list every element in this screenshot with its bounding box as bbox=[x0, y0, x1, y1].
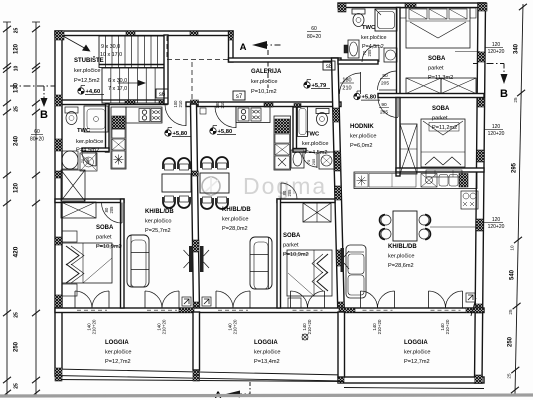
wall party apt1-apt2 vertical bbox=[191, 104, 200, 312]
balcony door label 5 bbox=[372, 319, 382, 334]
apt3 bed1 nightstand left bbox=[400, 8, 406, 18]
svg-text:120: 120 bbox=[14, 182, 20, 193]
svg-text:250: 250 bbox=[508, 336, 514, 347]
balcony french door 6 bbox=[429, 291, 463, 310]
svg-text:ker.pločice: ker.pločice bbox=[222, 217, 248, 223]
svg-text:ker.pločice: ker.pločice bbox=[105, 350, 131, 356]
pier party1 b bbox=[193, 302, 199, 312]
wall stairwell right vertical bbox=[164, 35, 168, 104]
room label apt2 KH/BL/DB bbox=[222, 207, 251, 232]
svg-text:SOBA: SOBA bbox=[428, 56, 446, 62]
left dimension line outer bbox=[3, 22, 11, 396]
scan edge line bottom bbox=[0, 395, 533, 396]
left width annotation 60/80+20 bbox=[30, 129, 44, 143]
apt1 twc toilet bbox=[65, 107, 78, 125]
svg-text:P=4,5m2: P=4,5m2 bbox=[76, 148, 99, 154]
svg-text:STUBIŠTE: STUBIŠTE bbox=[74, 56, 104, 64]
svg-text:ker.pločice: ker.pločice bbox=[350, 134, 376, 140]
balcony french door 2 bbox=[145, 291, 179, 310]
loggia pillar foot left bbox=[55, 376, 62, 382]
right dimension labels bbox=[507, 43, 520, 378]
svg-text:60: 60 bbox=[34, 129, 40, 135]
svg-text:180: 180 bbox=[342, 78, 351, 84]
svg-text:ker.pločice: ker.pločice bbox=[404, 350, 430, 356]
wall apt1 twc right vertical bbox=[106, 104, 110, 152]
outer wall gallery step vertical bbox=[229, 31, 234, 62]
svg-text:ker.pločice: ker.pločice bbox=[254, 350, 280, 356]
window label 180/210 apt3 bbox=[340, 78, 354, 92]
apt1 washbasin bbox=[62, 151, 78, 169]
apt2 kitchen counter bbox=[236, 107, 270, 123]
apt2 kitchen column bbox=[274, 116, 291, 170]
svg-text:B: B bbox=[500, 88, 508, 100]
apt3 right wall leader a bbox=[455, 51, 480, 53]
room label apt1 KH/BL/DB bbox=[145, 209, 174, 234]
svg-text:+5,80: +5,80 bbox=[173, 131, 188, 137]
apt3 twc washbasin bbox=[344, 40, 359, 58]
svg-text:205: 205 bbox=[311, 158, 316, 165]
apt2 level marker +5,80 bbox=[210, 126, 236, 136]
svg-text:SOBA: SOBA bbox=[283, 233, 301, 239]
svg-text:25: 25 bbox=[14, 383, 20, 389]
svg-text:s7: s7 bbox=[236, 94, 243, 100]
svg-text:210+20: 210+20 bbox=[307, 319, 312, 334]
wall main horizontal y100 (left span) bbox=[62, 100, 167, 105]
apt3 hall wardrobe bbox=[400, 124, 417, 174]
svg-text:P=13,4m2: P=13,4m2 bbox=[254, 359, 280, 365]
staircase label 10x17 bbox=[100, 52, 122, 58]
apt1 bed bbox=[62, 243, 112, 283]
svg-text:SOBA: SOBA bbox=[432, 106, 450, 112]
balcony door label 4 bbox=[302, 319, 312, 334]
room label loggia2 bbox=[254, 340, 280, 365]
level marker +4,60 stairs bbox=[78, 86, 104, 96]
apt1 nightstand 1 bbox=[62, 231, 77, 242]
svg-text:80+20: 80+20 bbox=[30, 137, 44, 143]
door apt3 soba2 bbox=[378, 98, 398, 118]
wall apt2 twc bottom stub bbox=[293, 149, 306, 153]
staircase label 6x30 bbox=[108, 78, 127, 84]
loggia2 level marker bbox=[302, 334, 308, 340]
room label apt3 TWC bbox=[362, 25, 376, 31]
svg-text:KH/BL/DB: KH/BL/DB bbox=[388, 244, 417, 250]
door apt2 soba bbox=[281, 183, 297, 199]
window mark square 3 bbox=[466, 293, 475, 302]
wall apt3 twc right vertical bbox=[397, 8, 401, 98]
pier top wall a bbox=[126, 31, 135, 36]
svg-text:P=28,6m2: P=28,6m2 bbox=[388, 263, 414, 269]
wall apt1 soba-kh divider vertical bbox=[121, 199, 125, 308]
gallery open edge dashed horizontal bbox=[167, 59, 229, 61]
window tag s7 bbox=[233, 91, 245, 100]
svg-text:210+20: 210+20 bbox=[445, 319, 450, 334]
svg-text:210: 210 bbox=[342, 86, 351, 92]
right dimension line bbox=[515, 4, 523, 394]
svg-text:GALERIJA: GALERIJA bbox=[251, 69, 282, 75]
wall apt3 hall horizontal y95 bbox=[378, 94, 484, 98]
pier top-left corner bbox=[55, 31, 64, 40]
svg-text:205: 205 bbox=[287, 189, 292, 197]
right dimension ticks bbox=[511, 4, 527, 393]
apt2 washing machine bbox=[319, 152, 335, 169]
svg-text:250: 250 bbox=[14, 341, 20, 352]
svg-text:TWC: TWC bbox=[77, 128, 91, 134]
pier left wall b bbox=[55, 139, 62, 151]
outer wall loggia bottom right bbox=[338, 377, 484, 383]
svg-text:90: 90 bbox=[382, 73, 388, 79]
wall bottom of rooms horizontal bbox=[55, 308, 484, 313]
staircase label 9x30 bbox=[101, 44, 120, 50]
svg-text:210+20: 210+20 bbox=[233, 319, 238, 334]
apt3 bed2 bbox=[421, 119, 465, 167]
svg-text:TWC: TWC bbox=[306, 132, 320, 138]
watermark logo bbox=[202, 173, 327, 199]
svg-text:10: 10 bbox=[510, 245, 515, 251]
svg-text:25: 25 bbox=[14, 28, 20, 34]
pier bottom wall b bbox=[339, 308, 355, 313]
right window annotation 120/120+20 #1 bbox=[480, 42, 505, 55]
svg-text:P=4,5m2: P=4,5m2 bbox=[305, 150, 328, 156]
level marker +5,80 apt3 bbox=[354, 91, 380, 101]
right window annotation 120/120+20 #2 bbox=[480, 124, 505, 137]
window mark square 2 bbox=[202, 297, 211, 306]
svg-text:LOGGIA: LOGGIA bbox=[404, 340, 428, 346]
svg-text:P=10,1m2: P=10,1m2 bbox=[251, 89, 277, 95]
door apt2 twc bbox=[302, 152, 317, 168]
door apt3 soba1 bbox=[378, 71, 397, 90]
wall apt2 soba top horizontal bbox=[277, 199, 335, 203]
svg-text:210: 210 bbox=[178, 100, 183, 108]
svg-text:HODNIK: HODNIK bbox=[350, 124, 374, 130]
section marker A top bbox=[240, 41, 283, 88]
svg-text:205: 205 bbox=[381, 81, 389, 87]
pier party2 c bbox=[336, 250, 343, 266]
window tag s6 bbox=[156, 89, 168, 98]
pier right wall c bbox=[477, 150, 484, 162]
svg-text:P=4,5m2: P=4,5m2 bbox=[362, 44, 384, 50]
svg-text:B: B bbox=[40, 109, 48, 121]
svg-text:+5,79: +5,79 bbox=[312, 83, 327, 89]
apt1 kh wardrobe tall bbox=[61, 170, 85, 201]
pier main wall c bbox=[191, 100, 199, 106]
apt1 tv bbox=[184, 246, 193, 272]
apt3 soba1 wardrobe bbox=[406, 78, 476, 94]
pier party2 b2 bbox=[334, 151, 341, 171]
svg-text:25: 25 bbox=[513, 97, 518, 103]
svg-text:90: 90 bbox=[381, 102, 387, 108]
room label loggia3 bbox=[404, 340, 430, 365]
room label apt2 TWC bbox=[302, 132, 330, 157]
svg-text:LOGGIA: LOGGIA bbox=[105, 340, 129, 346]
pier loggia mid bbox=[338, 369, 344, 383]
apt2 tv bbox=[200, 246, 209, 272]
svg-text:P=28,0m2: P=28,0m2 bbox=[222, 226, 248, 232]
room label loggia1 bbox=[105, 340, 131, 365]
pier bottom wall c bbox=[466, 308, 484, 313]
apt1 level marker +5,80 bbox=[165, 128, 191, 138]
apt3 right wall door leaf bbox=[471, 298, 476, 316]
apt1 sofa bbox=[127, 235, 149, 287]
outer wall apt3 top horizontal bbox=[338, 3, 486, 8]
svg-text:120+20: 120+20 bbox=[488, 224, 505, 230]
apt3 washing machine bbox=[461, 191, 478, 209]
section marker A bottom bbox=[215, 382, 250, 400]
balcony door label 3 bbox=[228, 319, 238, 334]
pier right wall d bbox=[476, 219, 483, 231]
svg-text:s6: s6 bbox=[159, 92, 166, 98]
svg-text:ker.pločice: ker.pločice bbox=[76, 139, 103, 145]
pier apt3 top-right corner bbox=[478, 3, 487, 11]
svg-text:60: 60 bbox=[311, 26, 317, 32]
door apt3 entrance bbox=[340, 72, 361, 94]
pier left wall d bbox=[55, 295, 62, 308]
stair void edge dashed bbox=[166, 36, 168, 60]
apt2 sofa bbox=[250, 237, 272, 289]
room label apt1 TWC bbox=[76, 128, 103, 154]
apt3 twc toilet bbox=[352, 9, 365, 27]
outer wall gallery top horizontal bbox=[229, 58, 342, 62]
svg-text:ker.pločico: ker.pločico bbox=[145, 219, 171, 225]
wall apt3 twc bottom horizontal bbox=[338, 60, 378, 64]
door apt1 entrance bbox=[165, 100, 186, 126]
pier party1 c bbox=[192, 171, 199, 176]
svg-text:s8: s8 bbox=[326, 64, 333, 70]
outer wall top-left horizontal bbox=[55, 31, 233, 36]
svg-text:540: 540 bbox=[510, 269, 516, 280]
pier bottom wall a bbox=[179, 308, 194, 313]
svg-text:9 x 30,0: 9 x 30,0 bbox=[101, 44, 120, 50]
pier party2 d bbox=[338, 302, 345, 312]
svg-text:ker.pločice: ker.pločice bbox=[251, 79, 277, 85]
svg-text:7 x 17,0: 7 x 17,0 bbox=[108, 86, 127, 92]
door apt1 twc bbox=[80, 152, 96, 166]
pier right wall bottom bbox=[475, 375, 483, 383]
svg-text:210: 210 bbox=[220, 101, 225, 109]
svg-text:A: A bbox=[240, 42, 247, 53]
loggia slab edge right bbox=[344, 388, 484, 389]
door apt1 soba bbox=[102, 203, 123, 224]
staircase upper flight bbox=[99, 36, 164, 68]
loggia slab edge left bbox=[55, 380, 344, 382]
svg-text:130: 130 bbox=[14, 82, 20, 93]
svg-text:ker.pločice: ker.pločice bbox=[361, 35, 386, 41]
wall apt1 soba top horizontal bbox=[55, 199, 124, 203]
section marker B right bbox=[473, 61, 508, 100]
pier apt3 top a bbox=[338, 3, 346, 12]
svg-text:P=12,5m2: P=12,5m2 bbox=[74, 78, 100, 84]
wall apt2 twc left vertical bbox=[293, 107, 297, 152]
apt1 twc shower bbox=[84, 106, 108, 132]
pier right wall e bbox=[475, 304, 482, 313]
apt2 twc toilet bbox=[316, 109, 329, 126]
balcony door label 1 bbox=[87, 319, 97, 334]
apt1 dining table and chairs bbox=[162, 158, 191, 208]
svg-text:+5,80: +5,80 bbox=[218, 129, 233, 135]
staircase direction diagonal bbox=[63, 36, 91, 52]
outer wall loggia bottom left bbox=[55, 369, 344, 381]
room label apt1 SOBA bbox=[96, 225, 122, 250]
pier apt3 top b bbox=[405, 3, 416, 8]
svg-text:420: 420 bbox=[13, 246, 20, 257]
room label apt3 SOBA1 bbox=[428, 56, 453, 81]
room label apt3 twc props bbox=[361, 35, 386, 50]
apt1 nightstand 2 bbox=[62, 284, 77, 296]
pier top wall b bbox=[190, 31, 198, 36]
svg-text:240: 240 bbox=[14, 135, 20, 146]
pier main wall b bbox=[159, 100, 167, 105]
svg-text:TWC: TWC bbox=[362, 25, 376, 31]
apt3 dining table and chairs bbox=[380, 211, 431, 241]
svg-text:25: 25 bbox=[507, 373, 512, 379]
apt3 kitchen counter row bbox=[354, 172, 477, 189]
svg-text:KH/BL/DB: KH/BL/DB bbox=[222, 207, 251, 213]
door frame detail bbox=[200, 108, 206, 114]
window tag s8 bbox=[323, 61, 335, 70]
balcony door label 6 bbox=[440, 319, 450, 334]
svg-text:P=25,7m2: P=25,7m2 bbox=[145, 228, 171, 234]
pier left wall a bbox=[55, 95, 62, 106]
gallery open edge dashed vertical bbox=[191, 62, 193, 100]
apt1 kitchen column bbox=[111, 107, 126, 169]
svg-text:25: 25 bbox=[508, 309, 513, 315]
wall loggia divider 2 bbox=[338, 312, 345, 377]
left dimension line inner bbox=[32, 22, 40, 396]
apt2 twc shower bbox=[298, 107, 308, 137]
svg-text:205: 205 bbox=[380, 110, 388, 116]
apt3 bed2 bench bbox=[426, 170, 462, 177]
apt2 wardrobe bbox=[303, 203, 331, 222]
wall apt3 soba2 left vertical bbox=[396, 98, 400, 177]
balcony french door 5 bbox=[361, 291, 395, 310]
pier party2 a bbox=[333, 108, 340, 122]
staircase lower flight bbox=[102, 68, 164, 103]
loggia pillar foot mid bbox=[193, 375, 200, 381]
wall party apt2-apt3 vertical bbox=[332, 58, 345, 312]
left dimension labels bbox=[13, 28, 20, 389]
section marker B left bbox=[10, 86, 58, 121]
svg-text:25: 25 bbox=[14, 106, 20, 112]
right window annotation 120/120+20 #3 bbox=[480, 217, 505, 230]
apt3 twc shower bbox=[375, 9, 397, 31]
svg-text:P=6,0m2: P=6,0m2 bbox=[350, 143, 373, 149]
room label apt3 SOBA2 bbox=[429, 106, 459, 131]
pier party2 b bbox=[335, 186, 342, 200]
pier left wall c bbox=[55, 171, 62, 178]
svg-text:+5,80: +5,80 bbox=[362, 95, 377, 101]
apt3 right wall leader b bbox=[430, 226, 480, 228]
pier main wall a bbox=[125, 100, 135, 105]
svg-text:ker.pločice: ker.pločice bbox=[302, 141, 328, 147]
svg-text:parket: parket bbox=[432, 116, 448, 122]
svg-text:+4,60: +4,60 bbox=[86, 89, 101, 95]
top window annotation 60/80+20 bbox=[307, 26, 321, 40]
door apt2 entrance bbox=[215, 101, 236, 128]
svg-text:210+20: 210+20 bbox=[92, 319, 97, 334]
wall main horizontal y100 (gallery span) bbox=[186, 102, 341, 107]
pier right wall b bbox=[477, 97, 484, 107]
svg-text:KH/BL/DB: KH/BL/DB bbox=[145, 209, 174, 215]
pier left wall bottom bbox=[55, 368, 62, 376]
balcony door label 2 bbox=[157, 319, 167, 334]
svg-text:210+20: 210+20 bbox=[162, 319, 167, 334]
svg-text:120+20: 120+20 bbox=[488, 49, 505, 55]
svg-text:120: 120 bbox=[492, 217, 501, 223]
svg-text:ker.pločice: ker.pločice bbox=[74, 68, 100, 74]
svg-text:parket: parket bbox=[283, 243, 299, 249]
apt1 kitchen counter bbox=[126, 107, 162, 123]
svg-text:340: 340 bbox=[514, 43, 520, 54]
svg-text:120: 120 bbox=[14, 43, 20, 54]
staircase label 7x17 bbox=[108, 86, 127, 92]
door apt3 twc bbox=[362, 45, 379, 62]
svg-text:10: 10 bbox=[14, 66, 20, 72]
apt2 bed bbox=[287, 250, 332, 296]
apt2 dining table and chairs bbox=[200, 157, 229, 209]
outer wall right vertical bbox=[475, 3, 486, 383]
wall apt2 kh-soba divider vertical bbox=[277, 199, 281, 308]
window mark square 1 bbox=[182, 297, 191, 306]
pier gallery corner bbox=[229, 31, 234, 40]
svg-text:80+20: 80+20 bbox=[307, 34, 321, 40]
apt3 sofa bbox=[346, 245, 366, 298]
svg-text:P=12,7m2: P=12,7m2 bbox=[105, 359, 131, 365]
svg-text:P=10,9m2: P=10,9m2 bbox=[96, 244, 122, 250]
room label apt3 KH/BL/DB bbox=[388, 244, 417, 269]
svg-text:ker.pločice: ker.pločice bbox=[388, 254, 414, 260]
apt2 nightstand bbox=[288, 298, 301, 308]
apt3 twc sink2 bbox=[384, 48, 397, 62]
svg-text:295: 295 bbox=[512, 162, 518, 173]
svg-text:parket: parket bbox=[96, 235, 112, 241]
wall apt1 twc bottom stub bbox=[82, 148, 109, 152]
wall loggia divider 1 bbox=[193, 312, 200, 370]
balcony french door 3 bbox=[216, 291, 250, 310]
svg-text:P=12,7m2: P=12,7m2 bbox=[404, 359, 430, 365]
svg-text:parket: parket bbox=[428, 66, 444, 72]
level marker +5,79 gallery bbox=[304, 80, 330, 90]
apt1 washing machine bbox=[80, 153, 97, 171]
staircase upper flight landing edge bbox=[99, 64, 164, 66]
svg-text:205: 205 bbox=[109, 206, 114, 214]
room label STUBISTE bbox=[74, 56, 104, 84]
svg-text:6 x 30,0: 6 x 30,0 bbox=[108, 78, 127, 84]
pier party1 a bbox=[192, 240, 199, 252]
room label HODNIK bbox=[350, 124, 376, 149]
apt3 bed1 nightstand right bbox=[470, 8, 476, 18]
svg-text:LOGGIA: LOGGIA bbox=[254, 340, 278, 346]
pier loggia divider 1 bbox=[193, 369, 200, 376]
room label GALERIJA bbox=[251, 69, 282, 95]
apt3 tv bbox=[341, 248, 350, 272]
svg-text:SOBA: SOBA bbox=[96, 225, 114, 231]
outer wall left vertical bbox=[55, 31, 62, 376]
pier right wall a bbox=[478, 52, 485, 62]
svg-text:120: 120 bbox=[492, 42, 501, 48]
pier main wall e bbox=[294, 104, 301, 108]
svg-text:25: 25 bbox=[14, 312, 20, 318]
svg-text:120: 120 bbox=[492, 124, 501, 130]
apt1 soba wardrobe wide bbox=[61, 202, 96, 218]
svg-text:210+20: 210+20 bbox=[377, 319, 382, 334]
svg-text:120+20: 120+20 bbox=[488, 131, 505, 137]
staircase direction arrow lower bbox=[118, 80, 146, 86]
left dimension ticks bbox=[3, 26, 40, 396]
pier main wall d bbox=[264, 103, 273, 107]
apt2 washbasin bbox=[291, 150, 304, 168]
pier left wall c2 bbox=[55, 237, 62, 245]
room label apt2 SOBA bbox=[283, 233, 309, 258]
balcony french door 4 bbox=[291, 291, 325, 310]
